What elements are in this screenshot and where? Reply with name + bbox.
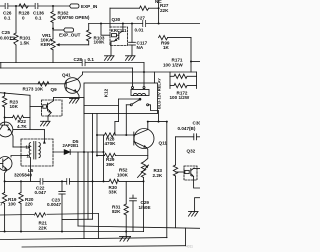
resistor R171 rail bars (169, 72, 171, 89)
connector EXP_OUT (64, 28, 74, 32)
svg-text:0.1: 0.1 (35, 15, 42, 20)
transistor Q32 dashed box (184, 166, 197, 180)
svg-text:0.0047: 0.0047 (47, 202, 61, 207)
wire R21 rail (0, 214, 98, 216)
relay coil box (131, 90, 149, 96)
wire top rail (0, 5, 70, 7)
resistor R23 (2, 93, 6, 118)
svg-text:Q30: Q30 (112, 17, 121, 22)
node junction R162 top (52, 5, 54, 7)
node junction R23 top (4, 92, 6, 94)
relay switch pivot wire (119, 98, 141, 100)
node junctions D5 rail (83, 151, 94, 153)
wire Q32 collector (194, 168, 200, 170)
wire C25/R101 drop (15, 6, 17, 33)
node junction Q11 collector (147, 121, 149, 123)
wire bus A (0, 231, 144, 233)
relay switch pivot (139, 98, 141, 100)
relay coil terminal 1 (132, 68, 134, 89)
wire W3 (83, 71, 197, 73)
wire contact 1 drop (126, 105, 130, 135)
resistor R19 (2, 181, 6, 231)
svg-text:EXP_OUT: EXP_OUT (59, 32, 81, 37)
svg-text:4011: 4011 (186, 245, 193, 249)
resistor R171 (170, 74, 197, 78)
KRC111 dashed box (110, 27, 128, 46)
svg-text:22K: 22K (39, 225, 48, 230)
L5 primary bottom drop (30, 158, 32, 181)
svg-text:2AP2B1: 2AP2B1 (63, 143, 79, 148)
relay switch contact 2 (147, 104, 149, 106)
relay coil bumps (133, 93, 146, 95)
KRC111 transistor symbol (111, 27, 123, 46)
diode D5 (64, 150, 70, 155)
svg-text:Q11: Q11 (159, 141, 168, 146)
capacitor C136 (35, 3, 38, 8)
wire Q9 emitter stub (47, 116, 49, 121)
wire W2 (0, 67, 133, 69)
resistor R21 (34, 212, 47, 217)
potentiometer R52 (138, 162, 149, 232)
wire L5 pin1 (11, 156, 21, 158)
node junction C117 (131, 23, 133, 25)
svg-text:0.1: 0.1 (4, 15, 11, 20)
resistor R99 (159, 35, 191, 39)
resistor R22 (5, 115, 30, 119)
resistor R28 (97, 133, 134, 137)
svg-text:Q32: Q32 (187, 148, 196, 153)
transistor Q41 (65, 72, 83, 98)
capacitor C23 (59, 181, 65, 231)
svg-text:4.7K: 4.7K (17, 124, 27, 129)
KRC111 input wire (101, 24, 110, 36)
svg-text:100K: 100K (94, 39, 106, 44)
wire Q32 ground feed (195, 198, 200, 212)
node junction Q32 input (175, 171, 177, 173)
L5 tuning arrow (30, 130, 46, 144)
node junction KRC input (100, 23, 102, 25)
capacitor C24 (67, 179, 70, 185)
node junction W3/T2 (143, 71, 145, 73)
wire column x78 (77, 152, 79, 226)
KRC111 base resistor (112, 34, 117, 37)
wire W1 (0, 62, 144, 64)
wire busC riser (185, 228, 187, 246)
Q32 transistor symbol (191, 168, 194, 177)
wire W0 main horizontal (89, 23, 200, 25)
resistor R101 (14, 33, 18, 45)
svg-text:NA: NA (137, 45, 144, 50)
capacitor C30 (176, 134, 201, 140)
Q9 transistor symbol (46, 97, 53, 116)
transistor Q11 (134, 122, 154, 162)
KRC111 emitter stub (110, 46, 112, 56)
wire V2 drop (175, 137, 177, 165)
wire D5 rail (53, 151, 104, 153)
svg-text:2.2K: 2.2K (153, 173, 163, 178)
resistor R128 (19, 4, 28, 8)
svg-text:10K: 10K (10, 104, 19, 109)
wire R21 rail riser (97, 214, 99, 239)
node junction KRC collector (122, 23, 124, 25)
svg-text:Q9: Q9 (51, 87, 58, 92)
svg-text:C27: C27 (137, 16, 146, 21)
svg-text:K12: K12 (104, 88, 109, 97)
wire column x103.5 (103, 135, 105, 181)
svg-text:0.01: 0.01 (135, 27, 144, 32)
node junction collector (158, 121, 160, 123)
node junction R27 (158, 7, 160, 9)
potentiometer VR1 (51, 29, 55, 63)
wire Q32 emitter (194, 177, 200, 189)
wire to right edge (191, 61, 200, 63)
wire bottom sloped rail (78, 226, 200, 228)
wire bus A right corner (143, 231, 145, 233)
L5 primary winding (29, 143, 30, 158)
svg-text:100K: 100K (117, 172, 129, 177)
svg-text:3205840: 3205840 (14, 172, 32, 177)
svg-text:33K: 33K (109, 189, 118, 194)
wire bus B (0, 238, 167, 240)
svg-text:R173 10K: R173 10K (23, 87, 44, 92)
svg-text:470K: 470K (105, 141, 117, 146)
wire relay feed right (154, 72, 156, 83)
wire R22 feedback (13, 129, 30, 131)
ground bus A (120, 232, 131, 242)
node junction V1 top (166, 121, 168, 123)
L5 pin1 stub (21, 155, 29, 157)
resistor R103 (87, 24, 91, 45)
wire column x97 (96, 114, 98, 156)
transistor Q10 upper (0, 118, 13, 148)
wire left edge joint (0, 63, 2, 69)
wire Q41 base (0, 83, 66, 85)
svg-text:KRC111: KRC111 (111, 28, 127, 33)
relay K12 box (84, 83, 158, 114)
node junction R28/pivot (125, 134, 127, 136)
node junction NC/W0 (158, 23, 160, 25)
ground C117 (125, 56, 135, 61)
svg-text:100 1/2W: 100 1/2W (163, 63, 183, 68)
svg-text:1/50E: 1/50E (139, 205, 151, 210)
svg-text:0(W760 OPEN): 0(W760 OPEN) (58, 15, 90, 20)
svg-text:0.001: 0.001 (0, 35, 12, 40)
ground KRC111 (104, 56, 114, 61)
node junction EXP_OUT (52, 28, 54, 30)
relay coil terminal 2 (143, 63, 145, 89)
node junctions bus A (4, 231, 128, 233)
wire column x84.5 (83, 97, 85, 238)
svg-text:82K: 82K (112, 209, 121, 214)
relay switch contact 1 (130, 104, 132, 106)
svg-text:Q41: Q41 (62, 73, 71, 78)
svg-text:10: 10 (26, 145, 31, 150)
L5 core lines (34, 142, 36, 160)
relay switch feed wire (84, 99, 119, 135)
resistor R20 (19, 181, 23, 231)
capacitor C25 (11, 37, 15, 39)
svg-text:C30: C30 (193, 121, 201, 126)
node junction top-left (15, 5, 17, 7)
Q32 base resistor (185, 170, 189, 173)
transformer L5 dashed box (21, 139, 53, 166)
wire emitter rail (5, 180, 109, 182)
svg-text:0.1: 0.1 (88, 57, 95, 62)
resistor R33 (173, 165, 177, 227)
capacitor C27 (143, 21, 146, 27)
node junction emitter rail (4, 180, 63, 182)
wire Q9 collector rail (54, 96, 85, 98)
svg-text:EXP_IN: EXP_IN (81, 4, 98, 9)
wire Q9 input (30, 106, 43, 108)
KRC111 collector wire (122, 24, 124, 28)
wire ladder y219 (62, 218, 93, 220)
connector EXP_IN (70, 4, 80, 8)
wire R101 to W1 (15, 45, 17, 63)
svg-text:100 1/2W: 100 1/2W (170, 95, 190, 100)
svg-text:KER-: KER- (41, 42, 53, 47)
svg-text:7: 7 (0, 201, 3, 206)
Q9 base resistor (43, 105, 47, 108)
resistor R30 (109, 179, 119, 183)
wire column x88 (87, 152, 89, 219)
node junctions columns (92, 134, 145, 182)
wire NC vertical (158, 0, 160, 24)
wire column x92.5 (92, 114, 94, 220)
svg-text:1K: 1K (163, 45, 170, 50)
wire to EXP_OUT (53, 29, 64, 31)
transistor Q9 dashed box (42, 100, 63, 116)
L5 pin10 stub (21, 146, 29, 148)
svg-text:22K: 22K (160, 8, 169, 13)
wire KRC top drop (109, 8, 111, 27)
wire Q32 input (176, 171, 185, 173)
ground Q41 (69, 99, 79, 104)
ground Q32 (188, 212, 198, 217)
svg-text:39K: 39K (106, 162, 115, 167)
wire R99 drop (190, 38, 192, 72)
ground Q9 (41, 121, 51, 126)
node junction R22 (4, 117, 6, 119)
transistor Q11 lower (0, 157, 12, 182)
svg-text:0.047: 0.047 (35, 190, 47, 195)
wire V1 (166, 122, 168, 238)
node junction 12V (190, 61, 192, 63)
wire Q11 collector rail (148, 121, 167, 123)
resistor R29 (97, 153, 148, 157)
wire Q9 input column (29, 95, 31, 129)
capacitor C117 (129, 24, 136, 56)
wire R23 rail (0, 93, 30, 96)
resistor R162 (51, 6, 55, 29)
svg-text:BLU-12V RELAY: BLU-12V RELAY (157, 78, 162, 109)
resistor R31 (124, 181, 128, 231)
svg-text:100: 100 (8, 201, 16, 206)
wire L5 pin10 (13, 146, 21, 148)
svg-text:220: 220 (25, 201, 33, 206)
wire bus C (22, 246, 186, 247)
L5 secondary winding (39, 143, 40, 158)
capacitor C22 (40, 179, 43, 185)
relay switch blade (132, 100, 139, 104)
resistor R172 (170, 83, 197, 87)
capacitor C26 (5, 3, 8, 8)
capacitor C29 (130, 195, 137, 232)
resistor R27 (110, 6, 159, 10)
svg-text:1.5K: 1.5K (20, 40, 30, 45)
VR1 wiper arrow (56, 43, 89, 46)
resistor R173 (38, 82, 49, 86)
capacitor C28 (82, 60, 85, 66)
svg-text:0: 0 (22, 15, 25, 20)
wire switch output (149, 105, 159, 122)
svg-text:0.047(B): 0.047(B) (178, 126, 196, 131)
svg-text:C28: C28 (74, 57, 83, 62)
